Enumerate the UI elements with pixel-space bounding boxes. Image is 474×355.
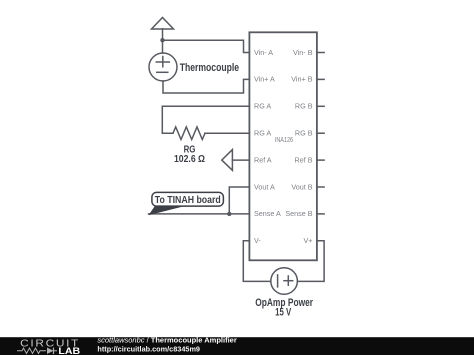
op-amp U1 INA126 body <box>249 32 317 260</box>
wire: V+ to battery minus <box>297 241 324 282</box>
wire: V- to battery plus <box>243 241 270 282</box>
svg-text:15 V: 15 V <box>275 307 292 319</box>
svg-text:Vin- A: Vin- A <box>254 48 273 57</box>
svg-text:Vin+ B: Vin+ B <box>291 75 312 84</box>
wire: resistor right to RG A (pin 4) <box>205 132 249 134</box>
logo resistor zigzag <box>17 348 46 354</box>
wire: junction to Vin-A <box>163 40 250 52</box>
wire: Ref A flag to Ref A pin <box>232 159 249 161</box>
pin stub RG B 2 <box>317 132 324 134</box>
svg-text:102.6 Ω: 102.6 Ω <box>174 154 205 165</box>
svg-text:Vin- B: Vin- B <box>293 48 313 57</box>
svg-text:V+: V+ <box>304 236 313 245</box>
wire: Vout A down to Sense node <box>229 187 249 214</box>
footer bar <box>0 336 474 355</box>
battery V2 (OpAmp Power) <box>271 268 298 295</box>
pin stub RG B 1 <box>317 105 324 107</box>
pin stub Vin-B <box>317 52 324 54</box>
svg-text:RG B: RG B <box>295 102 313 111</box>
svg-text:LAB: LAB <box>58 346 80 355</box>
svg-text:To TINAH board: To TINAH board <box>155 195 221 206</box>
IC pin labels <box>254 48 313 245</box>
svg-text:Ref A: Ref A <box>254 155 272 164</box>
pin stub Ref B <box>317 159 324 161</box>
labels (bold, dark) <box>174 62 314 319</box>
wire: thermocouple minus to Vin+A <box>163 79 249 93</box>
svg-text:V-: V- <box>254 236 261 245</box>
antenna flag (top) <box>152 18 174 54</box>
flag To TINAH board <box>149 192 224 215</box>
svg-text:Sense B: Sense B <box>285 209 312 218</box>
svg-text:RG A: RG A <box>254 102 271 111</box>
thermocouple source V1 <box>149 53 177 81</box>
wire: Sense A net to flag tail <box>149 213 250 215</box>
svg-text:Sense A: Sense A <box>254 209 281 218</box>
svg-text:INA126: INA126 <box>275 135 293 144</box>
svg-text:Vin+ A: Vin+ A <box>254 75 275 84</box>
pin stub Vout B <box>317 186 324 188</box>
logo diode <box>47 348 54 355</box>
svg-text:scottlawsonbc / Thermocouple A: scottlawsonbc / Thermocouple Amplifier <box>97 336 236 345</box>
resistor RG <box>173 127 205 140</box>
svg-text:Thermocouple: Thermocouple <box>180 62 239 74</box>
svg-text:Vout A: Vout A <box>254 182 275 191</box>
svg-text:http://circuitlab.com/c8345m9: http://circuitlab.com/c8345m9 <box>97 344 200 353</box>
svg-text:Ref B: Ref B <box>295 155 313 164</box>
antenna flag (Ref A, pointing left) <box>222 150 233 171</box>
pin stub Sense B <box>317 213 324 215</box>
svg-text:RG B: RG B <box>295 129 313 138</box>
node junction dot B <box>227 212 231 216</box>
svg-text:RG A: RG A <box>254 129 271 138</box>
node junction dot A <box>160 38 164 42</box>
wire: RG A (pin 3) to resistor left <box>162 106 249 133</box>
svg-text:Vout B: Vout B <box>291 182 312 191</box>
pin stub Vin+B <box>317 78 324 80</box>
